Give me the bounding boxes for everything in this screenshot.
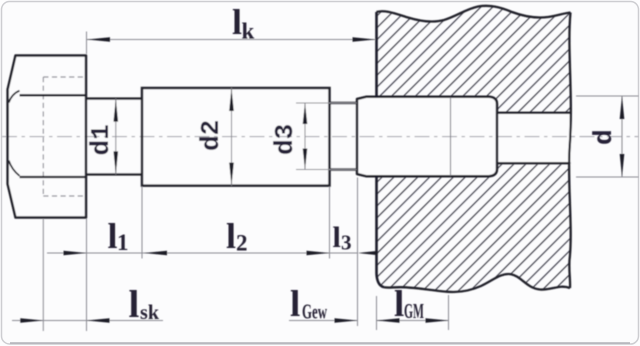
l2 left arrow bbox=[144, 251, 167, 256]
pilot hole wall top bbox=[496, 112, 571, 114]
d3 extension line top bbox=[296, 102, 357, 104]
dimension d3 line bbox=[304, 103, 306, 170]
thread engagement end line bbox=[450, 98, 452, 176]
hidden dashed line bottom bbox=[43, 195, 86, 197]
svg-text:1: 1 bbox=[117, 230, 129, 255]
pilot hole (white) beyond rod end bbox=[495, 112, 572, 164]
svg-text:l: l bbox=[226, 216, 236, 256]
hex head facet line top bbox=[20, 94, 87, 96]
svg-text:d1: d1 bbox=[86, 124, 116, 155]
dimension l_sk line bbox=[12, 320, 163, 322]
d extension line top bbox=[576, 95, 639, 97]
svg-text:l: l bbox=[108, 216, 118, 256]
shaft section d2 outline bbox=[142, 88, 330, 186]
d3 up arrow bbox=[303, 103, 308, 124]
hidden dashed line vertical in head bbox=[42, 77, 44, 196]
l1 extension line right bbox=[141, 187, 143, 259]
block bottom break edge bbox=[384, 274, 570, 292]
l_GM left arrow bbox=[377, 318, 400, 323]
l_Gew arrow bbox=[335, 318, 358, 323]
hex head outline bbox=[8, 56, 86, 218]
block top break edge bbox=[377, 6, 571, 22]
svg-text:l: l bbox=[394, 284, 404, 325]
centerline (axis) bbox=[2, 136, 639, 138]
threaded rod outline bbox=[357, 97, 497, 176]
l_k right arrow bbox=[353, 37, 376, 42]
svg-text:d3: d3 bbox=[270, 124, 300, 155]
svg-text:3: 3 bbox=[341, 231, 352, 255]
svg-text:Gew: Gew bbox=[302, 300, 328, 324]
dimension l2 line bbox=[144, 252, 330, 254]
svg-text:l: l bbox=[232, 2, 242, 42]
l_Gew extension line right bbox=[357, 178, 359, 327]
shaft section d3 outline bbox=[330, 103, 357, 170]
hex head facet line bottom bbox=[20, 176, 87, 178]
dimension l_GM line bbox=[377, 320, 449, 322]
l3 extension line left bbox=[329, 187, 331, 259]
dimension l3 line bbox=[330, 252, 358, 254]
d2 up arrow bbox=[229, 88, 234, 111]
l1 outside arrow bbox=[64, 251, 87, 256]
d up arrow bbox=[620, 96, 625, 119]
svg-text:l: l bbox=[333, 221, 341, 254]
d3 down arrow bbox=[303, 149, 308, 170]
l_GM extension line right bbox=[448, 295, 450, 330]
d2 down arrow bbox=[229, 163, 234, 186]
d1 down arrow bbox=[114, 151, 119, 174]
hex head fill bbox=[8, 56, 86, 218]
l_sk right outside arrow bbox=[87, 318, 110, 323]
l_sk left outside arrow bbox=[20, 318, 43, 323]
svg-text:l: l bbox=[129, 283, 140, 326]
hidden dashed line top bbox=[43, 76, 86, 78]
dimension d line bbox=[621, 96, 623, 177]
d down arrow bbox=[620, 154, 625, 177]
l_GM extension line left bbox=[376, 296, 378, 330]
l2 right arrow bbox=[307, 251, 330, 256]
svg-text:d2: d2 bbox=[196, 120, 226, 151]
block right break edge bbox=[569, 13, 571, 289]
threaded rod fill bbox=[357, 97, 497, 176]
hex head corner arc bottom bbox=[9, 161, 20, 176]
svg-text:2: 2 bbox=[236, 231, 248, 256]
shaft d1 fill bbox=[86, 99, 142, 175]
pilot hole wall bottom bbox=[496, 162, 571, 164]
svg-text:l: l bbox=[290, 284, 300, 325]
hex head corner arc top bbox=[9, 91, 20, 103]
d3 extension line bottom bbox=[296, 169, 357, 171]
l_GM right arrow bbox=[426, 318, 449, 323]
shaft d2 fill bbox=[142, 88, 330, 186]
l_k extension line bbox=[86, 32, 88, 55]
svg-text:d: d bbox=[589, 129, 619, 145]
dimension l_Gew line bbox=[289, 320, 358, 322]
block left edge above hole bbox=[375, 12, 378, 98]
svg-text:k: k bbox=[242, 19, 255, 44]
dimension d2 line bbox=[231, 88, 233, 186]
d extension line bottom bbox=[576, 176, 639, 178]
rod band white clearance inside block bbox=[377, 98, 496, 176]
svg-text:sk: sk bbox=[140, 300, 159, 324]
block left edge below hole bbox=[377, 176, 385, 288]
l3 outside arrow bbox=[358, 251, 378, 255]
l_k left arrow bbox=[87, 37, 110, 42]
dimension l_k line bbox=[87, 39, 376, 41]
shaft d3 fill bbox=[330, 103, 357, 170]
svg-text:GM: GM bbox=[404, 299, 424, 323]
d1 up arrow bbox=[114, 99, 119, 122]
hatched wall block (cross-section) bbox=[377, 6, 571, 292]
l_sk extension line left bbox=[42, 219, 44, 331]
l1 extension line left (head face) bbox=[86, 219, 88, 332]
shaft section d1 outline bbox=[86, 99, 142, 175]
dimension l1 line bbox=[47, 252, 144, 254]
dimension d1 line bbox=[115, 99, 117, 175]
